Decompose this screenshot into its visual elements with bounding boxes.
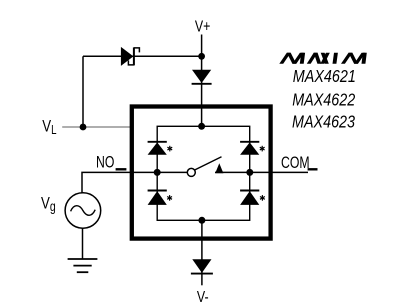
node top rail <box>198 123 205 130</box>
IC box outline <box>132 107 271 239</box>
diode D7 (V- clamp) <box>191 259 213 273</box>
asterisk D3 <box>167 195 172 201</box>
switch S1 contact triangle <box>215 163 223 173</box>
label Vg <box>41 194 56 215</box>
node NO inner junction <box>154 169 161 176</box>
diode D6 bottom-right <box>240 191 259 205</box>
svg-text:MAX4623: MAX4623 <box>292 113 355 132</box>
label V- <box>197 288 209 306</box>
svg-text:MAX4622: MAX4622 <box>292 91 355 110</box>
label MAX4623 <box>292 113 355 132</box>
source Vg sine <box>71 206 96 216</box>
asterisk D2 <box>167 146 172 152</box>
wire VL horizontal (grey) <box>62 126 131 128</box>
svg-text:NO: NO <box>96 154 114 172</box>
wire VL vertical <box>82 56 84 127</box>
MAXIM logo <box>279 53 367 64</box>
svg-text:COM: COM <box>281 154 310 172</box>
wire V+ vertical <box>201 35 203 127</box>
asterisk D6 <box>260 195 265 201</box>
wire Vg to ground <box>82 228 84 259</box>
inner diode network rectangle <box>157 126 250 220</box>
svg-text:MAX4621: MAX4621 <box>293 68 356 87</box>
diode D4 top-right <box>240 142 259 155</box>
wire NO / middle left <box>82 172 188 192</box>
diode D2 top-left <box>148 142 167 155</box>
asterisk D4 <box>260 146 265 152</box>
source Vg circle <box>65 193 101 229</box>
wire schottky horizontal <box>83 55 202 57</box>
label V+ <box>195 17 211 35</box>
svg-text:V+: V+ <box>195 17 211 35</box>
node bottom rail <box>198 217 205 224</box>
ground symbol <box>68 259 98 272</box>
label MAX4622 <box>292 91 355 110</box>
diode D3 bottom-left <box>148 191 167 205</box>
diode D1 (V+ clamp) <box>192 70 212 84</box>
label VL <box>42 117 56 137</box>
diode D5 schottky (VL to V+) <box>121 47 139 66</box>
node V+ junction <box>198 53 205 60</box>
wire middle right / COM <box>215 171 308 173</box>
label MAX4621 <box>293 68 356 87</box>
switch S1 lever <box>195 157 222 170</box>
wire V- vertical <box>201 220 203 285</box>
label COM_ <box>281 154 310 172</box>
node VL junction <box>80 124 87 131</box>
svg-text:V-: V- <box>197 288 209 306</box>
switch S1 pole circle <box>187 168 195 176</box>
label NO_ <box>96 154 114 172</box>
node COM inner junction <box>246 169 253 176</box>
